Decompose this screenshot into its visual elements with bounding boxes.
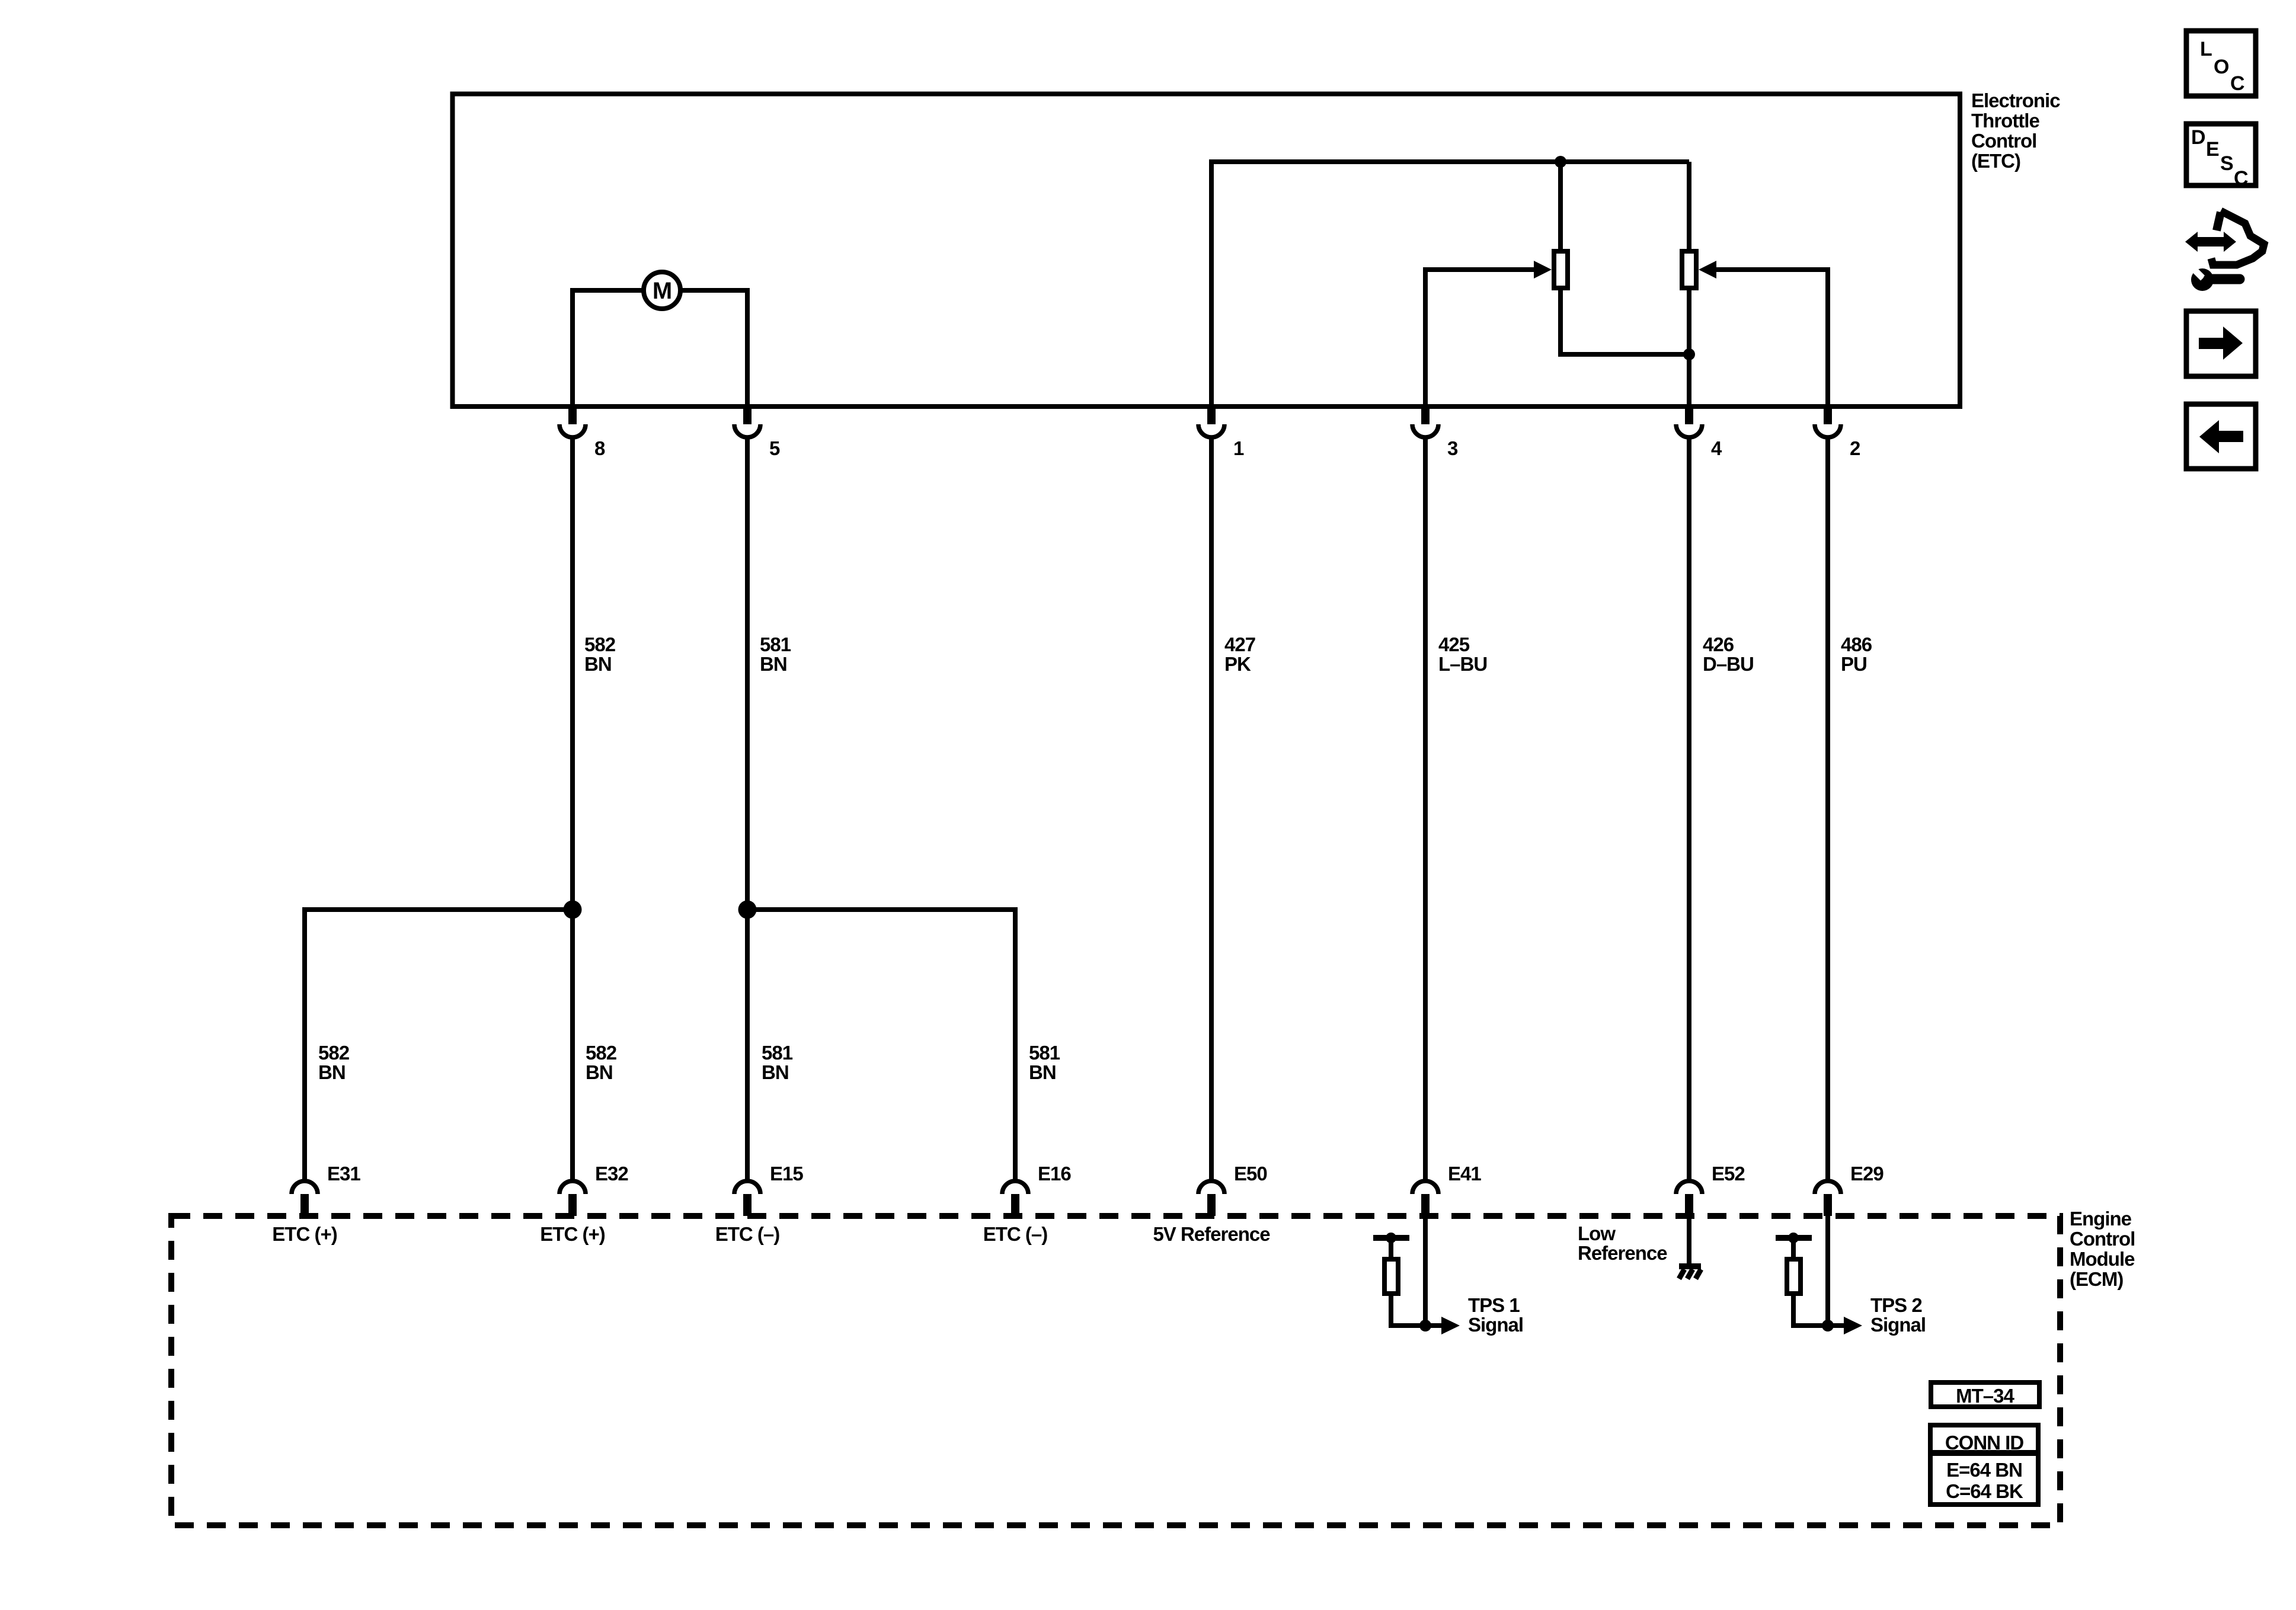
svg-text:E=64 BN: E=64 BN [1946, 1459, 2022, 1481]
icon LOC button [2186, 31, 2256, 96]
connector pin 3 of ETC [1412, 405, 1438, 437]
arrowhead wiper 2 [1699, 261, 1716, 279]
svg-text:Throttle: Throttle [1971, 110, 2039, 132]
resistor pull-up TPS 2 [1787, 1259, 1801, 1294]
svg-text:E29: E29 [1850, 1163, 1884, 1185]
svg-text:582: 582 [586, 1042, 617, 1064]
svg-text:D: D [2191, 126, 2205, 149]
wire motor loop right (pin 5 stub) [680, 290, 747, 406]
wire harness drop [1423, 437, 1428, 1181]
svg-text:Reference: Reference [1578, 1242, 1667, 1264]
connector terminal E50 of ECM [1198, 1181, 1224, 1216]
wire harness drop [570, 437, 575, 1181]
wire low reference to ground [1687, 1216, 1691, 1266]
svg-text:E41: E41 [1448, 1163, 1481, 1185]
connector pin 5 of ETC [734, 405, 760, 437]
connector terminal E41 of ECM [1412, 1181, 1438, 1216]
connector pin 1 of ETC [1198, 405, 1224, 437]
wire TPS 1 signal path inside ECM [1423, 1216, 1428, 1326]
junction dot signal TPS 1 [1419, 1320, 1431, 1331]
junction dot node TP bottom [1683, 348, 1695, 360]
wire arrow TPS 1 signal [1425, 1323, 1443, 1328]
svg-text:C: C [2230, 72, 2244, 95]
connector terminal E32 of ECM [559, 1181, 586, 1216]
svg-text:E16: E16 [1038, 1163, 1071, 1185]
svg-text:427: 427 [1224, 633, 1255, 655]
svg-text:BN: BN [762, 1061, 789, 1083]
svg-text:581: 581 [762, 1042, 793, 1064]
svg-text:TPS 2: TPS 2 [1870, 1294, 1922, 1316]
svg-text:(ETC): (ETC) [1971, 150, 2020, 172]
wire arrow TPS 2 signal [1828, 1323, 1845, 1328]
reference box MT-34 [1931, 1382, 2039, 1407]
svg-text:O: O [2214, 56, 2229, 78]
arrowhead TPS 2 signal [1844, 1317, 1862, 1334]
junction dot tap TPS 2 [1788, 1233, 1799, 1243]
wire pull-up tap bar TPS 1 [1373, 1235, 1409, 1241]
svg-text:BN: BN [318, 1061, 346, 1083]
svg-text:1: 1 [1233, 437, 1244, 459]
svg-text:Control: Control [1971, 130, 2036, 152]
wire branch to E16 [747, 910, 1015, 1181]
svg-text:(ECM): (ECM) [2070, 1268, 2123, 1290]
svg-text:BN: BN [586, 1061, 613, 1083]
wire pin 1 riser and top bus [1211, 162, 1689, 406]
svg-text:581: 581 [1029, 1042, 1060, 1064]
svg-text:L: L [2200, 38, 2212, 60]
reference box CONN ID [1930, 1425, 2038, 1505]
wire pull-up tap bar TPS 2 [1776, 1235, 1812, 1241]
svg-text:Engine: Engine [2070, 1208, 2132, 1230]
svg-text:425: 425 [1438, 633, 1470, 655]
wire harness drop [745, 437, 750, 1181]
resistor TPS1 element [1554, 251, 1568, 288]
icon next-page arrow button [2186, 311, 2256, 376]
ECM module dashed box [171, 1216, 2060, 1525]
junction dot tap TPS 1 [1386, 1233, 1396, 1243]
ETC module box [453, 94, 1961, 407]
svg-text:ETC (+): ETC (+) [272, 1223, 337, 1245]
svg-text:ETC (–): ETC (–) [983, 1223, 1048, 1245]
connector terminal E52 of ECM [1676, 1181, 1702, 1216]
svg-text:PK: PK [1224, 653, 1251, 675]
wire harness drop [1209, 437, 1214, 1181]
svg-text:2: 2 [1850, 437, 1860, 459]
motor M1 throttle actuator [644, 272, 680, 309]
connector pin 2 of ETC [1815, 405, 1841, 437]
svg-text:E15: E15 [770, 1163, 803, 1185]
svg-text:E32: E32 [595, 1163, 628, 1185]
resistor pull-up TPS 1 [1384, 1259, 1398, 1294]
wire TPS1 pot chain [1560, 162, 1687, 354]
connector pin 4 of ETC [1676, 405, 1702, 437]
svg-text:Low: Low [1578, 1222, 1616, 1244]
svg-text:TPS 1: TPS 1 [1468, 1294, 1520, 1316]
svg-text:D–BU: D–BU [1703, 653, 1754, 675]
svg-text:E52: E52 [1712, 1163, 1745, 1185]
svg-text:S: S [2220, 152, 2233, 175]
svg-text:582: 582 [584, 633, 616, 655]
svg-text:E: E [2206, 138, 2219, 161]
svg-text:BN: BN [1029, 1061, 1056, 1083]
svg-text:Control: Control [2070, 1228, 2135, 1250]
svg-text:3: 3 [1447, 437, 1458, 459]
connector terminal E31 of ECM [292, 1181, 318, 1216]
svg-text:Module: Module [2070, 1248, 2135, 1270]
wire TPS2 pot vertical to pin 4 [1687, 162, 1691, 406]
connector pin 8 of ETC [559, 405, 586, 437]
svg-text:Signal: Signal [1468, 1314, 1523, 1336]
svg-text:C: C [2234, 167, 2248, 190]
svg-text:426: 426 [1703, 633, 1734, 655]
svg-text:BN: BN [760, 653, 787, 675]
connector terminal E29 of ECM [1815, 1181, 1841, 1216]
svg-text:Signal: Signal [1870, 1314, 1926, 1336]
svg-text:Electronic: Electronic [1971, 89, 2060, 111]
resistor TPS2 element [1682, 251, 1696, 288]
wire harness drop [1825, 437, 1830, 1181]
svg-text:C=64 BK: C=64 BK [1946, 1480, 2023, 1502]
svg-text:L–BU: L–BU [1438, 653, 1487, 675]
wire pin 3 riser wiper 1 [1425, 270, 1536, 406]
arrowhead wiper 1 [1534, 261, 1552, 279]
svg-text:ETC (+): ETC (+) [540, 1223, 605, 1245]
svg-text:5: 5 [769, 437, 780, 459]
svg-text:582: 582 [318, 1042, 350, 1064]
svg-text:486: 486 [1841, 633, 1872, 655]
svg-text:ETC (–): ETC (–) [715, 1223, 780, 1245]
wire through pull-up resistor TPS 2 [1793, 1238, 1828, 1326]
arrowhead TPS 1 signal [1441, 1317, 1460, 1334]
svg-text:BN: BN [584, 653, 612, 675]
wire motor loop left (pin 8 stub) [573, 290, 644, 406]
wire through pull-up resistor TPS 1 [1391, 1238, 1425, 1326]
svg-text:MT–34: MT–34 [1956, 1385, 2014, 1407]
svg-text:PU: PU [1841, 653, 1867, 675]
junction splice S2 (581 BN) [738, 901, 757, 919]
wire pin 2 riser wiper 2 [1715, 270, 1828, 406]
svg-text:5V Reference: 5V Reference [1153, 1223, 1270, 1245]
icon connector-end-view (double arrow, outline, wrench) [2185, 211, 2264, 291]
junction splice S1 (582 BN) [564, 901, 582, 919]
svg-text:M: M [653, 278, 671, 304]
icon DESC button [2186, 124, 2256, 190]
ground chassis symbol [1679, 1266, 1701, 1279]
svg-text:E50: E50 [1234, 1163, 1267, 1185]
wire harness drop [1687, 437, 1691, 1181]
connector terminal E15 of ECM [734, 1181, 760, 1216]
svg-text:4: 4 [1711, 437, 1722, 459]
wire branch to E31 [305, 910, 573, 1181]
icon previous-page arrow button [2186, 404, 2256, 469]
svg-text:8: 8 [594, 437, 605, 459]
connector terminal E16 of ECM [1002, 1181, 1028, 1216]
wire TPS 2 signal path inside ECM [1825, 1216, 1830, 1326]
svg-text:581: 581 [760, 633, 791, 655]
junction dot node TP top [1555, 156, 1566, 168]
svg-text:E31: E31 [327, 1163, 360, 1185]
svg-text:CONN ID: CONN ID [1945, 1432, 2024, 1454]
junction dot signal TPS 2 [1822, 1320, 1834, 1331]
